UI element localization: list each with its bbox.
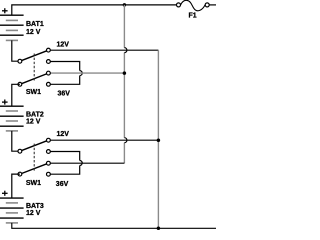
svg-text:36V: 36V xyxy=(56,181,69,188)
wire: SW1 throw 2a to vertical net xyxy=(48,72,124,74)
pole 2 terminal xyxy=(18,172,22,176)
switch SW1 (upper DPDT) xyxy=(18,48,50,86)
switch gang dashed link xyxy=(33,144,35,172)
throw 2b terminal xyxy=(47,82,51,86)
label + BAT3 xyxy=(2,191,8,196)
svg-text:12V: 12V xyxy=(57,42,70,49)
battery BAT1 xyxy=(0,15,24,40)
switch gang dashed link xyxy=(33,54,35,82)
wire hop: SW1 bracket over throw 2a wire xyxy=(80,71,83,76)
fuse F1 xyxy=(177,0,210,10)
svg-text:12 V: 12 V xyxy=(26,119,41,126)
switch arm pole1-throw1a xyxy=(20,50,49,61)
wire: SW1 12V output to right bus xyxy=(48,49,158,51)
label + BAT2 xyxy=(2,100,8,105)
pole 1 terminal xyxy=(18,59,22,63)
wire hop: SW2 bracket over throw 2a wire xyxy=(80,161,83,166)
node: junction dot 12V bus at bottom bus xyxy=(157,227,161,231)
throw 2b terminal xyxy=(47,172,51,176)
node: junction dot top bus / series feed xyxy=(123,3,127,7)
throw 1b terminal xyxy=(47,60,51,64)
wire: vertical net from top junction down to SW2 throw 2a with crossover hops xyxy=(123,5,125,163)
battery BAT3 xyxy=(0,198,24,223)
switch arm pole2-throw2a xyxy=(20,163,49,174)
throw 2a terminal xyxy=(47,161,51,165)
wire hop: vertical over SW2 12V wire xyxy=(124,138,127,143)
wire: fuse output to right edge xyxy=(209,4,216,6)
pole 2 terminal xyxy=(18,82,22,86)
wire hop: vertical over SW1 12V wire xyxy=(124,48,127,53)
svg-text:12 V: 12 V xyxy=(26,210,41,217)
wire: BAT1 negative to SW1 pole 1 xyxy=(12,40,20,61)
node: junction dot SW2 12V wire at 12V bus xyxy=(157,138,161,142)
throw 1b terminal xyxy=(47,150,51,154)
wire: horizontal from vertical net corner to SW2 throw 2a xyxy=(50,162,124,164)
wire: BAT2 negative to SW2 pole 1 xyxy=(12,131,20,151)
svg-text:F1: F1 xyxy=(189,13,197,20)
svg-text:BAT1: BAT1 xyxy=(26,21,44,28)
wire: 12V bus vertical down to bottom bus xyxy=(157,50,159,228)
battery BAT2 xyxy=(0,106,24,131)
switch arm pole1-throw1a xyxy=(20,140,49,151)
wire: BAT3 negative to bottom bus to right edge xyxy=(12,223,216,228)
label + BAT1 xyxy=(2,8,8,13)
svg-text:12 V: 12 V xyxy=(26,29,41,36)
svg-text:12V: 12V xyxy=(57,131,70,138)
svg-text:SW1: SW1 xyxy=(26,89,41,96)
switch SW2 (lower DPDT, labeled SW1) xyxy=(18,138,50,176)
wire: SW2 throw 1b to throw 2b bracket with hop xyxy=(48,152,79,175)
svg-text:BAT2: BAT2 xyxy=(26,112,44,119)
wire: BAT1 positive stub and top bus to fuse xyxy=(12,5,177,15)
throw 1a terminal xyxy=(47,48,51,52)
svg-text:SW1: SW1 xyxy=(26,180,41,187)
wire: SW2 12V output to right bus xyxy=(48,139,158,141)
svg-text:36V: 36V xyxy=(58,91,71,98)
node: junction dot at vertical net and SW1 throw 2a wire xyxy=(123,71,127,75)
wire: SW1 pole 2 to BAT2 positive xyxy=(12,84,20,106)
switch arm pole2-throw2a xyxy=(20,73,49,84)
throw 2a terminal xyxy=(47,71,51,75)
wire: SW1 throw 1b to throw 2b bracket with hop xyxy=(48,62,79,85)
pole 1 terminal xyxy=(18,149,22,153)
wire: SW2 pole 2 to BAT3 positive xyxy=(12,174,20,198)
svg-text:BAT3: BAT3 xyxy=(26,203,44,210)
throw 1a terminal xyxy=(47,138,51,142)
